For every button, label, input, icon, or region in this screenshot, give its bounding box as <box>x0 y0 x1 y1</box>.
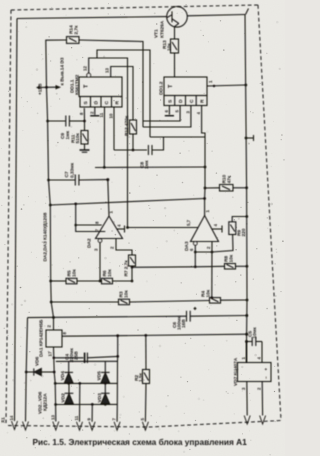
svg-text:D: D <box>178 99 184 103</box>
diode VD5 <box>101 372 110 383</box>
svg-text:VD2: VD2 <box>61 393 67 403</box>
svg-text:R7 2,7к: R7 2,7к <box>124 260 130 277</box>
svg-text:13: 13 <box>50 415 55 420</box>
wire R14 left down to +12V node <box>46 40 67 87</box>
DD1.1 pin 2 ground <box>90 107 99 116</box>
IC DA1 voltage regulator <box>46 318 118 358</box>
svg-text:DA2: DA2 <box>87 238 93 248</box>
wire pin 11 drop <box>79 383 81 421</box>
svg-text:DA1 КР142ЕН5Б: DA1 КР142ЕН5Б <box>39 319 45 357</box>
arrow to pin 14 of D3 <box>47 85 62 89</box>
svg-text:10: 10 <box>109 113 114 118</box>
inner loop shelf <box>150 136 205 138</box>
svg-text:КТ629А: КТ629А <box>160 20 166 38</box>
node stub with tick on right bus <box>246 137 254 139</box>
wire y267 row <box>132 265 197 268</box>
svg-text:25В: 25В <box>74 351 80 360</box>
capacitor C6 <box>187 307 197 322</box>
svg-text:к Выв.14 D3: к Выв.14 D3 <box>60 57 66 85</box>
resistor R14 <box>67 37 80 44</box>
wire DA1 pin17 rail down <box>54 358 56 422</box>
IC DD1.1 trigger body <box>79 77 122 107</box>
resistor R4 <box>210 296 249 303</box>
resistor R12 <box>130 120 137 150</box>
resistor R3 <box>119 299 130 305</box>
frame: dashed boundary of block A1 <box>6 5 281 427</box>
frame bottom <box>8 421 281 428</box>
svg-text:VD4: VD4 <box>60 371 66 381</box>
extra routing loop <box>97 50 150 137</box>
capacitor C8 <box>147 145 149 155</box>
capacitor C5 <box>247 337 263 346</box>
connector pin hooks along bottom <box>12 416 266 431</box>
svg-text:10к: 10к <box>229 254 235 262</box>
DD1.2 pin 5 loop <box>143 106 180 122</box>
diode bridge VD7 <box>238 340 272 381</box>
svg-text:R: R <box>115 101 121 105</box>
wire row y167 <box>95 166 205 169</box>
svg-text:10к: 10к <box>107 269 113 277</box>
svg-text:12: 12 <box>83 66 88 71</box>
DA2 pin 2 wire to R7 <box>116 239 132 256</box>
DA2 pin 4 tick <box>117 226 125 233</box>
op-amp DA2 <box>96 216 123 242</box>
svg-text:10к: 10к <box>206 289 212 297</box>
svg-text:47к: 47к <box>227 175 233 183</box>
svg-text:Т: Т <box>168 84 174 88</box>
wire VT1 base to R13 <box>174 27 176 40</box>
central vertical line <box>203 137 206 216</box>
wire DA2 input feed <box>74 204 105 232</box>
diode VD6 <box>26 368 55 375</box>
svg-text:Рис. 1.5. Электрическая схема: Рис. 1.5. Электрическая схема блока упра… <box>33 437 248 447</box>
svg-text:+12В: +12В <box>38 83 44 95</box>
svg-text:DD1.2: DD1.2 <box>159 81 165 95</box>
svg-text:VT1: VT1 <box>154 29 160 38</box>
svg-text:0,33мк: 0,33мк <box>70 162 76 178</box>
svg-text:R12 470к: R12 470к <box>124 115 130 136</box>
wire pin 7 drop (bridge right rail) <box>116 336 119 422</box>
svg-text:10мк: 10мк <box>252 327 258 339</box>
wire rail y316 <box>28 314 249 319</box>
wire R13 to DD1.2 <box>174 53 176 77</box>
transistor VT1 <box>167 6 188 27</box>
DA2 pin 1 output up <box>108 180 109 216</box>
capacitor C7 <box>47 175 109 186</box>
bridge row3 <box>54 403 117 406</box>
diode VD4 <box>64 372 73 383</box>
resistor R9 <box>229 215 248 234</box>
DD1.1 pin 13 loop to R12 <box>111 67 133 121</box>
wire right bus <box>245 15 247 363</box>
DD1.2 pin 6 ground <box>165 106 174 116</box>
wire bus C (+12V vertical feed) <box>47 87 54 317</box>
svg-text:КД212А: КД212А <box>43 393 49 411</box>
bridge row2 <box>54 382 118 385</box>
wire R14 rail right and down <box>79 40 143 127</box>
svg-text:510к: 510к <box>75 133 81 144</box>
capacitor C4 <box>53 353 120 363</box>
wire node to DD1.1 S pin <box>83 108 85 121</box>
DD1.1 pin 11 wire <box>103 107 105 167</box>
DA3 pin 2 wire down to R4 <box>211 242 214 298</box>
DA3 pin 6 wire down <box>194 245 197 267</box>
corner tick mark <box>246 9 249 15</box>
resistor R2 <box>143 335 150 421</box>
resistor R6 <box>102 278 113 284</box>
svg-text:VD3: VD3 <box>97 393 103 403</box>
svg-text:VD7 КЦ407А: VD7 КЦ407А <box>233 357 239 386</box>
DA3 input wire from DD1.1 pin12 loop <box>126 226 198 229</box>
resistor R7 <box>129 255 136 282</box>
wire row y205 <box>49 199 205 207</box>
wire +5V row to right bus <box>116 333 248 337</box>
svg-text:К561ТМ2: К561ТМ2 <box>75 74 81 95</box>
svg-text:DA2,DA3 К140УД1208: DA2,DA3 К140УД1208 <box>43 212 49 261</box>
svg-text:10к: 10к <box>124 290 130 298</box>
DA2 pin 3 wire down <box>99 242 101 281</box>
resistor R8 <box>195 264 248 270</box>
svg-text:16В: 16В <box>181 319 187 328</box>
svg-text:11: 11 <box>74 415 79 420</box>
wire VD7 output pins down <box>247 382 263 416</box>
wire pin 9 drop <box>91 404 93 421</box>
resistor R10 <box>205 137 248 191</box>
DD1.2 output pin 1 to right bus <box>207 84 247 88</box>
op-amp DA3 <box>191 216 219 246</box>
svg-text:VD6: VD6 <box>35 356 41 366</box>
svg-text:220: 220 <box>241 228 247 236</box>
wire bus A left (to pin 14) <box>15 19 18 422</box>
frame right <box>258 5 281 421</box>
svg-text:10к: 10к <box>167 43 173 51</box>
bridge row1 <box>56 361 118 372</box>
frame left <box>6 10 11 423</box>
svg-text:R: R <box>200 99 206 103</box>
capacitor C9 <box>46 116 86 127</box>
svg-text:14: 14 <box>9 415 14 420</box>
svg-text:11: 11 <box>99 112 104 117</box>
DD1.1 pin 10 wire <box>113 107 115 150</box>
wire R9 bottom link <box>212 235 233 253</box>
wire row y302 with R3 <box>50 299 210 305</box>
svg-text:C: C <box>104 101 110 105</box>
svg-text:2,7к: 2,7к <box>74 25 80 34</box>
svg-text:13: 13 <box>105 68 110 73</box>
DD1.2 pin 4 loop to central line <box>202 106 205 138</box>
IC DD1.2 trigger body <box>164 77 207 106</box>
diode VD3 <box>101 383 110 403</box>
wire joining DA3 input pins <box>195 251 212 253</box>
wire bus B down to connector <box>25 318 28 422</box>
wire row y281 with R5 R6 <box>49 278 132 284</box>
svg-text:C: C <box>189 99 195 103</box>
wire top rail right <box>187 15 245 16</box>
wire top rail left <box>17 17 167 19</box>
svg-text:+: + <box>264 368 269 371</box>
resistor R5 <box>66 278 77 284</box>
DD1.1 pin 12 inversion circle and loop <box>87 58 128 228</box>
wire row y150 with C8 <box>114 137 164 155</box>
svg-text:Х1: Х1 <box>1 417 7 423</box>
svg-text:10к: 10к <box>72 269 78 277</box>
svg-text:−: − <box>264 376 269 379</box>
svg-text:С7: С7 <box>64 171 70 177</box>
DD1.2 pin 3 loop <box>143 106 191 128</box>
DA3 pin 4 tick <box>212 226 222 233</box>
resistor R11 <box>81 121 88 150</box>
ground under R11 <box>80 150 90 152</box>
svg-text:Т: Т <box>84 84 90 88</box>
node +12V with arrow <box>36 86 48 90</box>
resistor R13 <box>171 39 179 53</box>
diode VD2 <box>65 383 74 403</box>
svg-text:1мк: 1мк <box>144 160 150 169</box>
svg-text:5,7: 5,7 <box>186 219 191 226</box>
svg-text:1мк: 1мк <box>65 130 71 139</box>
frame top <box>11 5 258 10</box>
